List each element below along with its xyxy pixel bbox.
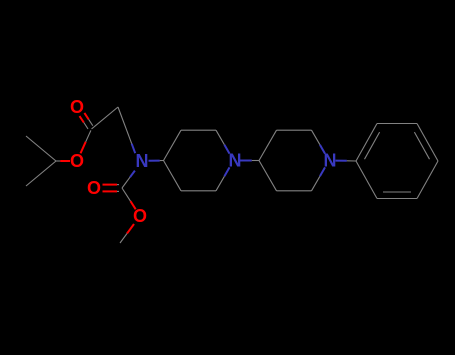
- svg-text:O: O: [70, 97, 84, 117]
- phenyl bond C2-C3: [377, 123, 417, 125]
- bond O-CH3 methyl: [127, 224, 134, 234]
- ring1 bond N-C2: [224, 145, 229, 154]
- ring2 bond N-C6: [320, 167, 325, 176]
- svg-text:O: O: [87, 178, 101, 198]
- bond N1-CH2 alpha: [132, 144, 136, 154]
- ring1 bond N-C6: [224, 167, 229, 176]
- double bond ester C=O: [80, 116, 84, 122]
- ring1 bond C6-C5: [181, 190, 216, 192]
- svg-text:N: N: [324, 151, 337, 171]
- ring2 bond C4-C3: [259, 130, 277, 160]
- bond ring2N-phenylC1: [336, 160, 347, 162]
- bond N1-carbamateC: [130, 171, 135, 178]
- bond CH-O ester: [56, 160, 60, 162]
- ring2 bond C5-C4: [259, 161, 277, 191]
- bond carbamateC-O: [122, 188, 131, 201]
- ring1 bond C4-C3: [164, 130, 182, 160]
- phenyl bond C6-C1: [356, 161, 377, 199]
- ring2 bond N-C2: [320, 145, 325, 154]
- phenyl bond C3-C4: [417, 124, 438, 162]
- svg-text:O: O: [133, 206, 147, 226]
- bond ring1N-ring2C4: [240, 160, 252, 162]
- ring2 bond C3-C2: [277, 129, 312, 131]
- ring1 bond C5-C4: [164, 161, 182, 191]
- phenyl double bond inner line C1-C2: [365, 132, 380, 159]
- wire CH2-carbonylC: [92, 107, 119, 129]
- wire isopropyl CH3 lower to CH: [26, 161, 56, 186]
- bond esterO-carbonylC: [81, 142, 86, 154]
- double bond carbamate C=O: [103, 190, 118, 192]
- svg-text:N: N: [136, 151, 149, 171]
- svg-text:N: N: [229, 151, 242, 171]
- bond N1-ring1 C4: [149, 160, 160, 162]
- phenyl bond C1-C2: [356, 124, 377, 162]
- ring2 bond C6-C5: [277, 190, 312, 192]
- ring1 bond C3-C2: [181, 129, 216, 131]
- phenyl bond C4-C5: [417, 161, 438, 199]
- wire isopropyl CH3 upper to CH: [26, 136, 56, 161]
- svg-text:O: O: [70, 151, 84, 171]
- phenyl bond C5-C6: [377, 198, 417, 200]
- phenyl double bond inner line C3-C4: [414, 132, 429, 159]
- phenyl double bond inner line C5-C6: [383, 191, 411, 193]
